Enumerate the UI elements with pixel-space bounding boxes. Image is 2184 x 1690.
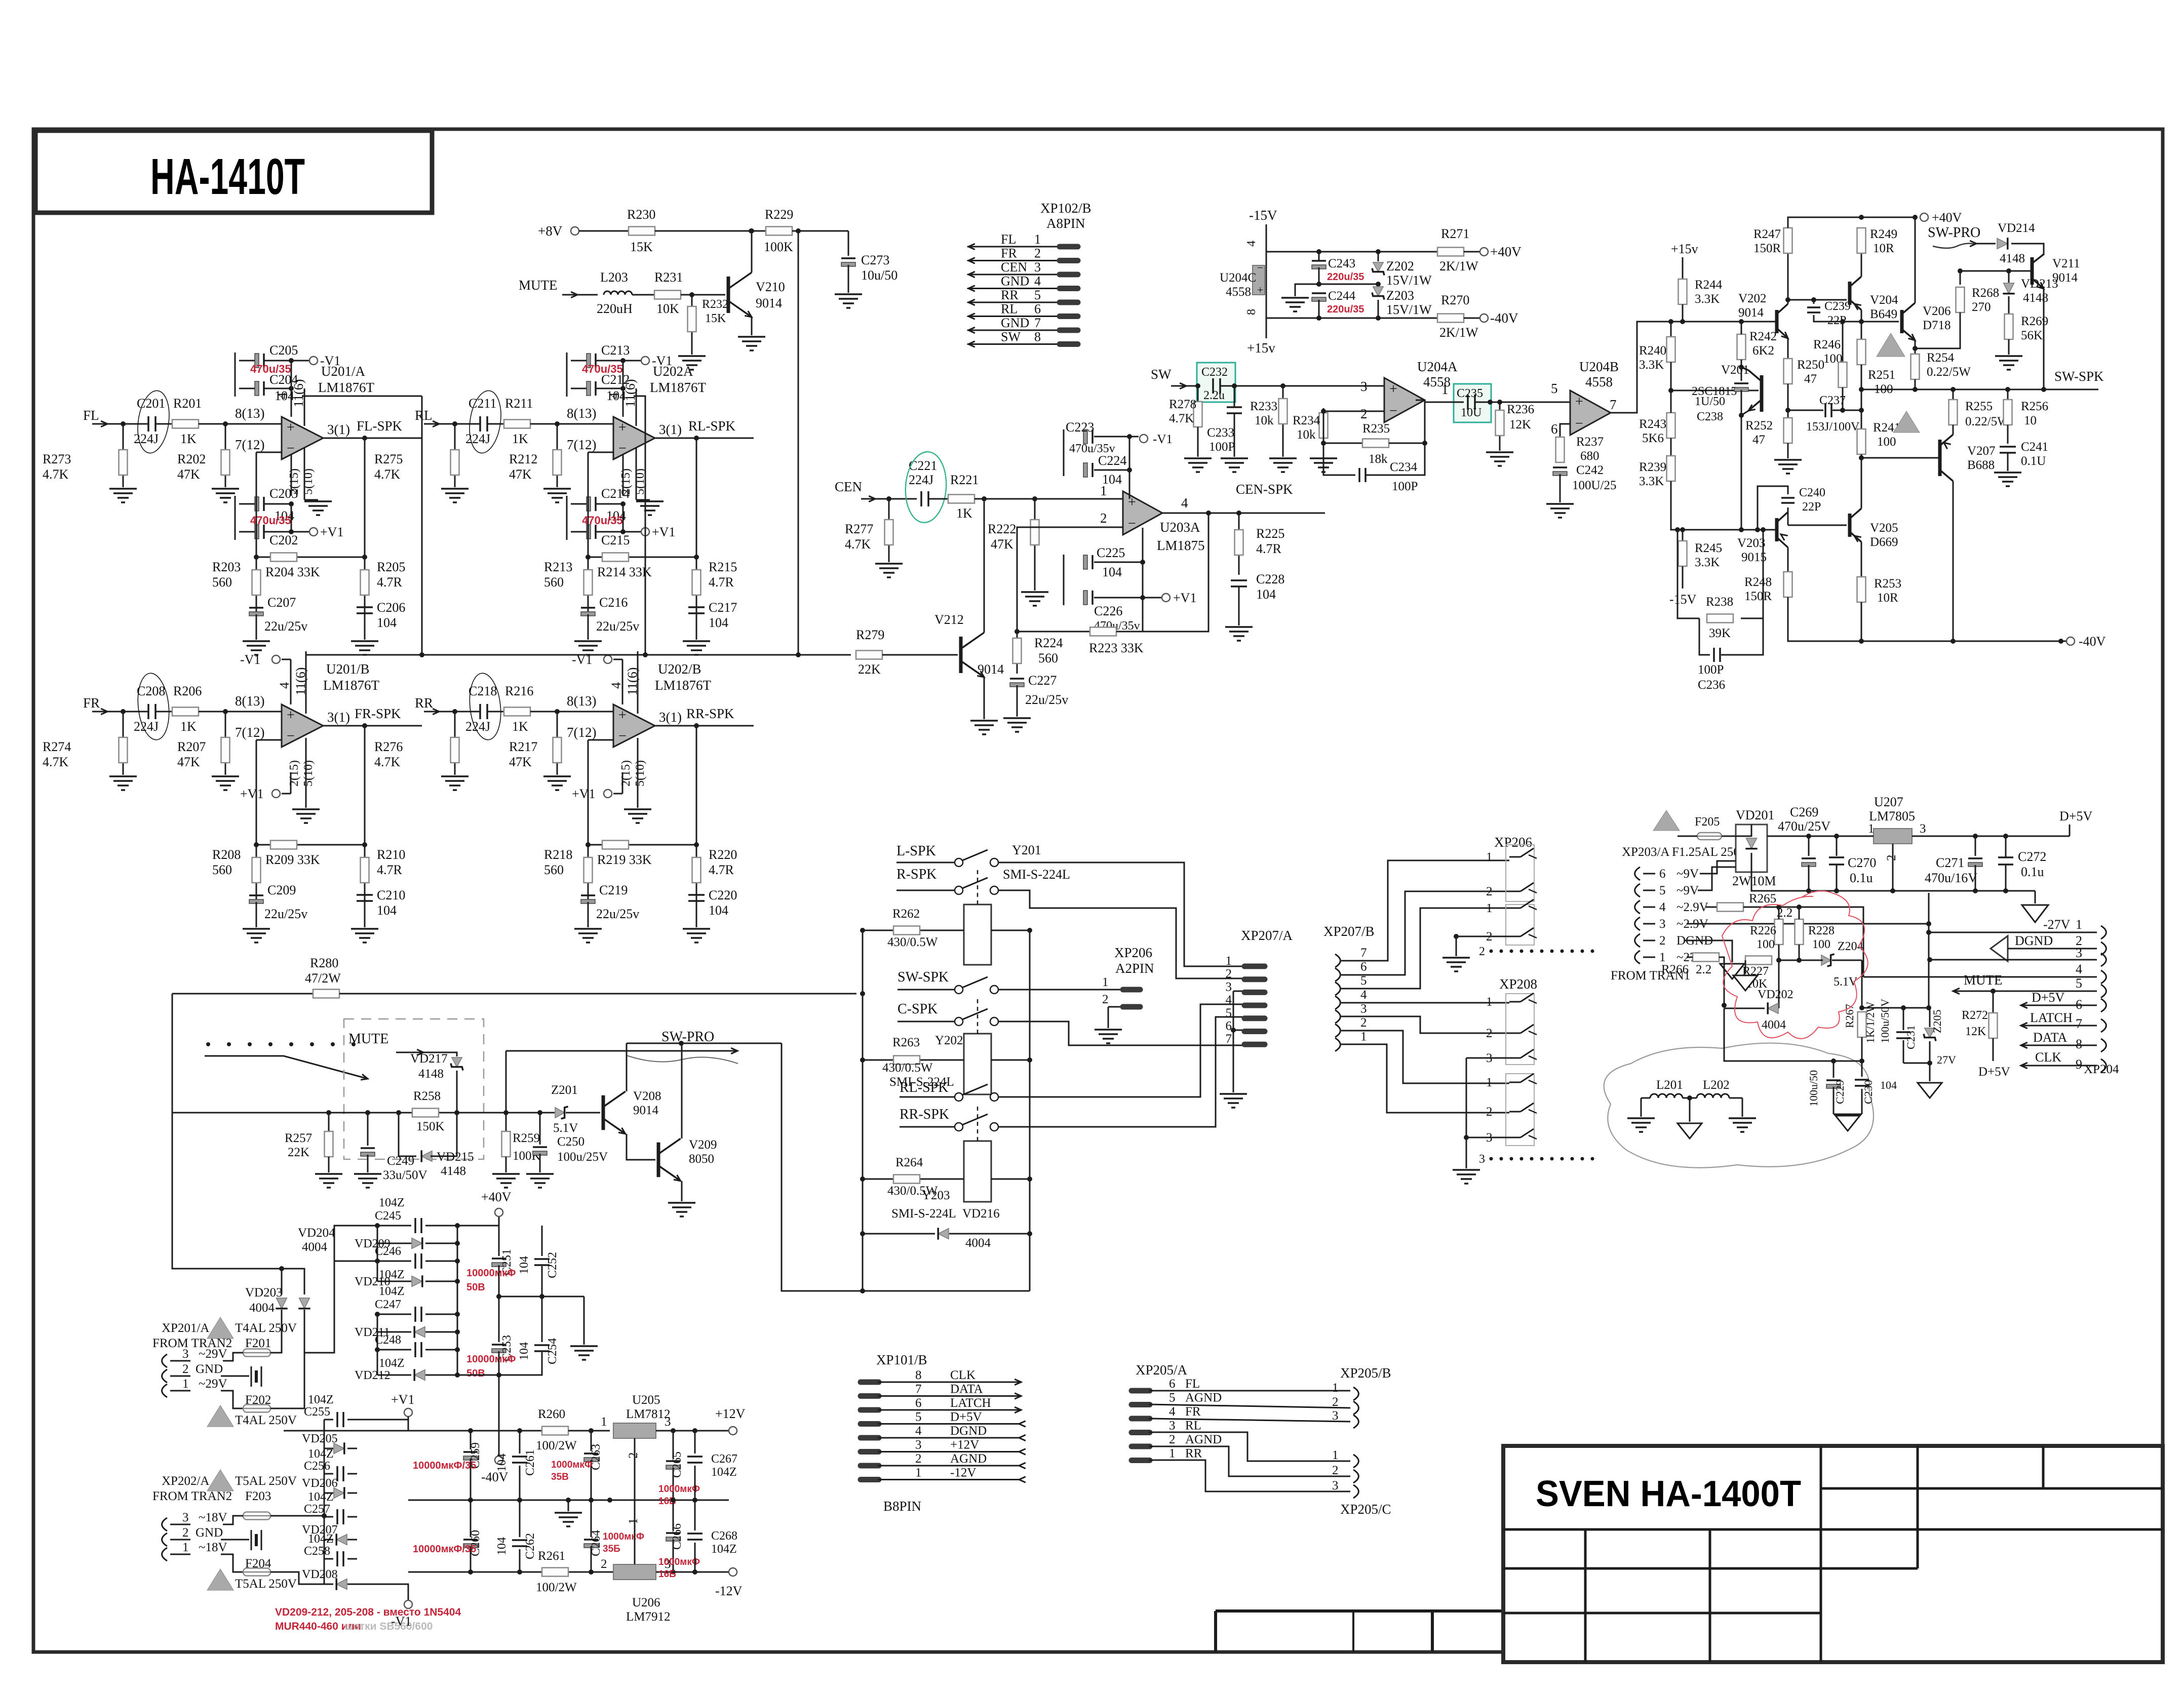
svg-text:FR: FR bbox=[1185, 1405, 1201, 1419]
relay bottom loop bbox=[782, 1043, 1030, 1291]
transistor V211 bbox=[2031, 257, 2034, 285]
svg-text:270: 270 bbox=[1972, 300, 1991, 314]
svg-text:XP205/A: XP205/A bbox=[1136, 1362, 1188, 1378]
svg-text:R234: R234 bbox=[1293, 414, 1320, 427]
resistor R215 bbox=[696, 438, 697, 618]
svg-text:C246: C246 bbox=[375, 1245, 401, 1258]
svg-text:100/2W: 100/2W bbox=[536, 1581, 577, 1594]
svg-text:50В: 50В bbox=[466, 1282, 485, 1293]
svg-text:F202: F202 bbox=[245, 1393, 271, 1407]
capacitor C251 bbox=[498, 1226, 500, 1256]
svg-text:C242: C242 bbox=[1576, 463, 1604, 477]
svg-text:B8PIN: B8PIN bbox=[883, 1499, 921, 1514]
svg-text:FROM TRAN1: FROM TRAN1 bbox=[1611, 969, 1690, 982]
svg-text:1: 1 bbox=[2076, 917, 2082, 932]
svg-text:1: 1 bbox=[1360, 1030, 1367, 1044]
svg-text:−: − bbox=[287, 441, 295, 456]
resistor R279 bbox=[856, 651, 882, 659]
svg-text:3: 3 bbox=[915, 1438, 922, 1452]
svg-text:220u/35: 220u/35 bbox=[1327, 304, 1364, 315]
svg-text:C205: C205 bbox=[269, 343, 298, 358]
wire bbox=[1670, 362, 1672, 390]
svg-text:5: 5 bbox=[1034, 288, 1041, 302]
capacitor C229 bbox=[1826, 1079, 1841, 1081]
svg-text:C234: C234 bbox=[1390, 460, 1418, 474]
svg-text:4: 4 bbox=[277, 682, 292, 689]
svg-text:2: 2 bbox=[182, 1526, 189, 1540]
svg-text:C262: C262 bbox=[524, 1533, 537, 1559]
svg-text:8050: 8050 bbox=[689, 1152, 714, 1166]
svg-text:2(15): 2(15) bbox=[288, 760, 301, 787]
svg-text:7: 7 bbox=[1226, 1032, 1232, 1046]
ground triangle DGND bbox=[1720, 964, 1744, 979]
capacitor C265 bbox=[673, 1431, 674, 1459]
wire Y202 right pin bbox=[991, 1059, 1030, 1061]
svg-text:2K/1W: 2K/1W bbox=[1439, 259, 1478, 273]
socket pin 4 XP203 bbox=[1635, 900, 1640, 914]
svg-text:104: 104 bbox=[377, 615, 397, 630]
svg-text:LM7912: LM7912 bbox=[626, 1610, 671, 1624]
diode VD207 bbox=[324, 1539, 333, 1541]
svg-text:104Z: 104Z bbox=[308, 1393, 334, 1406]
op-amp U203A bbox=[1123, 491, 1162, 535]
relay Y201 bbox=[964, 905, 991, 965]
wire V209 emitter ground bbox=[681, 1181, 683, 1201]
svg-text:-V1: -V1 bbox=[652, 353, 672, 368]
svg-text:SW-PRO: SW-PRO bbox=[661, 1029, 714, 1045]
terminal -40V right bbox=[2066, 637, 2075, 645]
svg-text:15V/1W: 15V/1W bbox=[1386, 302, 1432, 317]
capacitor C267 bbox=[694, 1431, 696, 1453]
wire V205 emitter bbox=[1861, 542, 1862, 577]
svg-text:4: 4 bbox=[275, 392, 290, 399]
svg-text:R208: R208 bbox=[212, 847, 241, 862]
svg-text:RR: RR bbox=[415, 695, 433, 711]
wire bbox=[974, 498, 1123, 500]
diode VD215 loop bbox=[399, 1113, 416, 1156]
svg-text:1K: 1K bbox=[512, 719, 528, 734]
svg-text:SVEN HA-1400T: SVEN HA-1400T bbox=[1536, 1474, 1801, 1514]
svg-text:R216: R216 bbox=[505, 684, 533, 698]
svg-text:2: 2 bbox=[1659, 934, 1666, 948]
svg-text:C271: C271 bbox=[1936, 855, 1964, 870]
resistor R273 bbox=[123, 424, 124, 487]
capacitor C210 bbox=[357, 894, 373, 896]
capacitor C242 bbox=[1553, 466, 1567, 468]
svg-text:C219: C219 bbox=[599, 883, 628, 897]
svg-text:DGND: DGND bbox=[2015, 933, 2053, 948]
wire bbox=[861, 498, 917, 500]
wire emitter to ground bbox=[984, 677, 985, 719]
wire collector rail bbox=[627, 1043, 782, 1044]
svg-text:104: 104 bbox=[1102, 565, 1122, 579]
svg-text:FL: FL bbox=[83, 408, 99, 423]
wire mute to VD217 bbox=[423, 1052, 457, 1056]
svg-text:220u/35: 220u/35 bbox=[1327, 271, 1364, 283]
fuse F203 bbox=[243, 1512, 270, 1520]
wire pin3 gnd column bbox=[1233, 991, 1242, 992]
transistor V202 bbox=[1775, 310, 1779, 333]
red squiggle bbox=[1722, 891, 1868, 1039]
svg-text:DGND: DGND bbox=[950, 1424, 987, 1438]
ground bbox=[1559, 474, 1561, 502]
svg-text:+15v: +15v bbox=[1247, 340, 1275, 356]
capacitor C248 bbox=[377, 1349, 411, 1351]
svg-text:9014: 9014 bbox=[633, 1104, 659, 1117]
svg-text:104: 104 bbox=[495, 1537, 509, 1555]
title box HA-1410T bbox=[35, 131, 432, 213]
svg-text:C210: C210 bbox=[377, 888, 405, 902]
svg-text:8: 8 bbox=[2076, 1037, 2082, 1051]
svg-text:5: 5 bbox=[1659, 884, 1666, 897]
svg-text:104: 104 bbox=[1880, 1079, 1897, 1091]
svg-text:AGND: AGND bbox=[1185, 1391, 1222, 1405]
svg-text:+V1: +V1 bbox=[391, 1392, 414, 1407]
svg-text:10R: 10R bbox=[1877, 591, 1898, 605]
svg-text:2: 2 bbox=[1486, 1105, 1493, 1119]
relay bus right bbox=[1029, 930, 1031, 1291]
svg-text:4.7R: 4.7R bbox=[1256, 541, 1282, 556]
svg-text:SW: SW bbox=[1001, 330, 1021, 344]
svg-text:4148: 4148 bbox=[2000, 252, 2025, 265]
svg-text:33u/50V: 33u/50V bbox=[383, 1168, 427, 1182]
svg-text:LATCH: LATCH bbox=[2030, 1010, 2073, 1025]
resistor R237 bbox=[1559, 441, 1561, 462]
wire collector to CEN net bbox=[984, 501, 985, 633]
svg-text:1: 1 bbox=[915, 1466, 922, 1480]
capacitor C225 C226 supply bbox=[1063, 555, 1065, 605]
wires z net bbox=[1778, 945, 1780, 960]
resistor R270 bbox=[1437, 314, 1464, 323]
wire inverting input bbox=[588, 739, 613, 741]
resistor R219 bbox=[602, 841, 629, 849]
svg-text:100u/50: 100u/50 bbox=[1807, 1070, 1820, 1107]
svg-text:1: 1 bbox=[182, 1541, 189, 1554]
svg-text:C230: C230 bbox=[1862, 1080, 1875, 1104]
svg-text:2: 2 bbox=[1034, 246, 1041, 261]
bottom rail bbox=[408, 1571, 656, 1573]
svg-text:U204B: U204B bbox=[1579, 359, 1619, 374]
socket pin 1 XP207/B bbox=[1335, 1038, 1340, 1051]
svg-text:470u/25V: 470u/25V bbox=[1778, 819, 1830, 834]
svg-text:V212: V212 bbox=[934, 612, 964, 627]
svg-text:560: 560 bbox=[544, 862, 564, 877]
transistor V208 bbox=[602, 1095, 605, 1130]
svg-text:1: 1 bbox=[1486, 995, 1493, 1009]
svg-text:VD217: VD217 bbox=[410, 1052, 448, 1066]
svg-text:18k: 18k bbox=[1369, 452, 1388, 466]
svg-text:F204: F204 bbox=[245, 1557, 271, 1570]
svg-text:R271: R271 bbox=[1441, 226, 1469, 241]
svg-text:R276: R276 bbox=[374, 739, 403, 754]
svg-text:R211: R211 bbox=[505, 396, 533, 411]
svg-text:C238: C238 bbox=[1697, 410, 1723, 423]
ic U204C bbox=[1253, 265, 1265, 295]
svg-text:T4AL 250V: T4AL 250V bbox=[235, 1321, 297, 1335]
relay Y202 bbox=[964, 1034, 991, 1094]
svg-text:R256: R256 bbox=[2021, 400, 2048, 413]
wire bbox=[92, 711, 148, 713]
svg-text:C235: C235 bbox=[1457, 387, 1483, 400]
ground triangle bbox=[2035, 891, 2036, 903]
svg-text:104Z: 104Z bbox=[379, 1285, 405, 1298]
svg-text:104: 104 bbox=[377, 903, 397, 918]
big arrow DGND bbox=[1991, 936, 2008, 961]
svg-text:VD209-212, 205-208 - вместо 1N: VD209-212, 205-208 - вместо 1N5404 bbox=[275, 1606, 461, 1618]
svg-text:RR-SPK: RR-SPK bbox=[686, 706, 734, 721]
svg-text:FL: FL bbox=[1185, 1377, 1200, 1391]
svg-text:8(13): 8(13) bbox=[235, 406, 264, 421]
ground triangle L mid bbox=[1678, 1123, 1702, 1138]
svg-text:SW-SPK: SW-SPK bbox=[2054, 369, 2104, 384]
transistor V209 bbox=[657, 1143, 660, 1177]
svg-text:T5AL 250V: T5AL 250V bbox=[235, 1474, 297, 1488]
svg-text:T4AL 250V: T4AL 250V bbox=[235, 1413, 297, 1427]
svg-text:~18V: ~18V bbox=[199, 1511, 227, 1524]
svg-text:5: 5 bbox=[1360, 974, 1367, 988]
svg-text:XP201/A: XP201/A bbox=[162, 1321, 209, 1335]
svg-text:-12V: -12V bbox=[950, 1466, 976, 1480]
svg-text:1000мкФ: 1000мкФ bbox=[603, 1531, 644, 1542]
blob inductors bbox=[1604, 1043, 1874, 1168]
resistor R253 bbox=[1857, 577, 1866, 602]
svg-text:LM7812: LM7812 bbox=[626, 1407, 671, 1421]
svg-text:R279: R279 bbox=[856, 627, 884, 642]
svg-text:C206: C206 bbox=[377, 600, 405, 615]
svg-text:12K: 12K bbox=[1965, 1025, 1986, 1038]
bridge vertical rails bbox=[377, 1226, 378, 1281]
diode VD210 bbox=[377, 1281, 411, 1282]
svg-text:XP204: XP204 bbox=[2084, 1063, 2119, 1076]
diode VD214 bbox=[1976, 243, 1996, 245]
resistor R251 bbox=[1842, 322, 1844, 362]
svg-text:C245: C245 bbox=[375, 1209, 401, 1223]
svg-text:7(12): 7(12) bbox=[567, 725, 596, 740]
svg-text:V208: V208 bbox=[633, 1089, 661, 1103]
svg-text:VD213: VD213 bbox=[2021, 277, 2058, 291]
resistor R272 bbox=[1993, 991, 1994, 1013]
wire bbox=[566, 1112, 600, 1114]
svg-text:C233: C233 bbox=[1207, 426, 1234, 440]
svg-text:L202: L202 bbox=[1703, 1078, 1730, 1092]
capacitor C246 bbox=[377, 1261, 411, 1262]
svg-text:R277: R277 bbox=[845, 522, 873, 536]
svg-text:VD216: VD216 bbox=[962, 1207, 1000, 1221]
ground opamp bbox=[637, 738, 639, 808]
ground bbox=[539, 1154, 541, 1172]
svg-text:R237: R237 bbox=[1576, 435, 1604, 449]
svg-text:R204 33K: R204 33K bbox=[265, 565, 320, 579]
svg-text:F203: F203 bbox=[245, 1489, 271, 1503]
socket pin 6 XP203 bbox=[1635, 867, 1640, 880]
svg-text:104: 104 bbox=[495, 1453, 509, 1472]
resistor R258 bbox=[412, 1109, 439, 1117]
svg-text:560: 560 bbox=[212, 862, 232, 877]
svg-text:C272: C272 bbox=[2018, 849, 2046, 864]
svg-text:R258: R258 bbox=[413, 1089, 441, 1103]
wire fuse to caps bbox=[270, 1515, 324, 1517]
net -V1 terminal bbox=[404, 1600, 412, 1608]
capacitor C221 bbox=[920, 491, 922, 506]
svg-text:4: 4 bbox=[607, 392, 621, 399]
resistor R221 bbox=[928, 498, 948, 500]
svg-text:4: 4 bbox=[1034, 274, 1041, 289]
svg-text:7: 7 bbox=[2076, 1016, 2082, 1031]
svg-text:8(13): 8(13) bbox=[567, 406, 596, 421]
wire V204 emitter col bbox=[1861, 310, 1862, 339]
svg-text:7: 7 bbox=[1034, 316, 1041, 330]
wire xp207b pin7 up bbox=[1341, 860, 1509, 961]
resistor R218 bbox=[588, 845, 589, 906]
svg-text:D+5V: D+5V bbox=[1978, 1065, 2010, 1079]
capacitor C223 C224 supply bbox=[1063, 429, 1065, 476]
svg-text:1K: 1K bbox=[512, 431, 528, 446]
capacitor C214 bbox=[587, 497, 591, 511]
svg-text:680: 680 bbox=[1580, 449, 1600, 463]
svg-text:1: 1 bbox=[1169, 1447, 1176, 1461]
net -V1 drop bbox=[304, 388, 305, 395]
svg-text:35Б: 35Б bbox=[603, 1544, 620, 1554]
svg-text:4558: 4558 bbox=[1226, 285, 1251, 299]
svg-text:0.22/5W: 0.22/5W bbox=[1927, 365, 1971, 379]
svg-text:R248: R248 bbox=[1744, 575, 1772, 589]
svg-text:-V1: -V1 bbox=[240, 652, 260, 667]
pin 4 DGND XP101/B bbox=[861, 1435, 879, 1441]
wire feedback to output bbox=[1116, 513, 1208, 632]
wires xp205 a to c bbox=[1149, 1432, 1350, 1461]
resistor R267 bbox=[1861, 960, 1863, 1008]
resistor R243 bbox=[1667, 413, 1675, 438]
resistor R207 bbox=[225, 712, 226, 775]
svg-text:R213: R213 bbox=[544, 560, 572, 574]
pin 4 GND bbox=[967, 288, 1059, 289]
svg-text:470u/16V: 470u/16V bbox=[1925, 871, 1977, 885]
svg-text:V202: V202 bbox=[1738, 292, 1767, 305]
wire bbox=[530, 423, 613, 425]
svg-text:C236: C236 bbox=[1698, 678, 1725, 692]
svg-text:5(10): 5(10) bbox=[634, 760, 647, 787]
svg-text:R222: R222 bbox=[988, 522, 1016, 536]
svg-text:+: + bbox=[1389, 381, 1397, 397]
svg-text:~9V: ~9V bbox=[1676, 867, 1699, 881]
svg-text:47: 47 bbox=[1752, 433, 1765, 447]
svg-text:VD204: VD204 bbox=[298, 1226, 335, 1240]
wire bbox=[562, 294, 598, 296]
op-amp U201/B bbox=[282, 704, 323, 747]
svg-text:2(15): 2(15) bbox=[288, 468, 301, 495]
resistor R236 bbox=[1499, 402, 1501, 451]
svg-text:22u/25v: 22u/25v bbox=[596, 907, 639, 921]
svg-text:L-SPK: L-SPK bbox=[896, 843, 936, 859]
dotted line bbox=[206, 1042, 210, 1046]
svg-text:4004: 4004 bbox=[302, 1240, 328, 1254]
svg-text:~2.9V: ~2.9V bbox=[1676, 900, 1708, 914]
svg-text:XP206: XP206 bbox=[1114, 945, 1152, 960]
wire R267 bottom bbox=[1861, 1037, 1863, 1061]
op-amp U204A bbox=[1384, 378, 1425, 422]
svg-text:4004: 4004 bbox=[1762, 1018, 1786, 1032]
svg-text:RR: RR bbox=[1001, 288, 1019, 302]
resistor R280 bbox=[172, 993, 313, 995]
svg-text:L203: L203 bbox=[600, 270, 628, 285]
svg-text:R252: R252 bbox=[1745, 419, 1773, 433]
capacitor C244 bbox=[1312, 292, 1326, 294]
svg-text:SMI-S-224L: SMI-S-224L bbox=[1003, 867, 1070, 882]
wire caps to rails bbox=[357, 1419, 408, 1421]
svg-text:R268: R268 bbox=[1972, 286, 1999, 300]
capacitor C257 bbox=[324, 1516, 333, 1518]
capacitor C220 bbox=[688, 894, 705, 896]
svg-text:R264: R264 bbox=[895, 1156, 923, 1169]
capacitor C205 bbox=[255, 353, 259, 368]
svg-text:47K: 47K bbox=[509, 467, 532, 482]
ground bbox=[678, 355, 706, 357]
svg-text:5: 5 bbox=[1226, 1006, 1232, 1020]
wire Y203 right pin bbox=[991, 1178, 1030, 1180]
wire bbox=[655, 230, 766, 232]
capacitor C213 bbox=[587, 353, 591, 368]
capacitor C268 bbox=[694, 1500, 696, 1530]
svg-text:15K: 15K bbox=[705, 312, 726, 325]
svg-text:C273: C273 bbox=[861, 253, 889, 267]
svg-text:R238: R238 bbox=[1706, 595, 1733, 609]
ground L right bbox=[1729, 1117, 1756, 1119]
svg-text:D+5V: D+5V bbox=[2032, 990, 2064, 1005]
wire RL-SPK to pin4 bbox=[998, 1004, 1242, 1097]
svg-text:1: 1 bbox=[1486, 850, 1493, 864]
ground bbox=[2008, 339, 2010, 355]
wire bbox=[1221, 385, 1384, 387]
wire bbox=[424, 423, 455, 425]
svg-text:6: 6 bbox=[915, 1396, 922, 1410]
caps group C255-C258 and diodes VD205-208 bbox=[324, 1420, 325, 1584]
svg-text:V206: V206 bbox=[1923, 304, 1951, 318]
svg-text:4558: 4558 bbox=[1585, 374, 1613, 389]
resistor R206 bbox=[156, 711, 172, 713]
svg-text:15V/1W: 15V/1W bbox=[1386, 273, 1432, 288]
svg-text:4: 4 bbox=[609, 682, 623, 689]
svg-text:C217: C217 bbox=[709, 600, 737, 615]
ground bbox=[696, 613, 697, 640]
svg-text:2: 2 bbox=[601, 1557, 607, 1571]
diode VD213 bbox=[2008, 271, 2010, 283]
svg-text:+V1: +V1 bbox=[652, 525, 675, 539]
capacitor C203 bbox=[255, 497, 259, 511]
capacitor C239 bbox=[1813, 300, 1815, 304]
ground bbox=[441, 488, 469, 490]
resistor R226 bbox=[1775, 919, 1783, 945]
svg-text:4004: 4004 bbox=[965, 1236, 991, 1250]
resistor R249 bbox=[1861, 253, 1862, 277]
svg-text:6: 6 bbox=[1034, 302, 1041, 317]
svg-text:3(1): 3(1) bbox=[327, 422, 350, 437]
svg-text:V209: V209 bbox=[689, 1138, 717, 1152]
svg-text:3.3K: 3.3K bbox=[1639, 358, 1664, 372]
resistor R240 bbox=[1670, 322, 1672, 337]
svg-text:3.3K: 3.3K bbox=[1695, 556, 1720, 569]
svg-text:R273: R273 bbox=[43, 452, 71, 466]
svg-text:2: 2 bbox=[915, 1452, 922, 1466]
svg-text:2: 2 bbox=[1486, 1027, 1493, 1040]
capacitor C202 bbox=[255, 525, 259, 539]
pin 3 CEN bbox=[967, 274, 1059, 276]
svg-text:C243: C243 bbox=[1328, 257, 1355, 270]
vertical -27V feed bbox=[1928, 893, 1930, 1008]
svg-text:3.3K: 3.3K bbox=[1695, 292, 1720, 306]
svg-text:100: 100 bbox=[1757, 938, 1775, 951]
svg-text:DATA: DATA bbox=[950, 1383, 983, 1396]
wire SW-SPK to XP206 pin1 bbox=[998, 989, 1122, 991]
